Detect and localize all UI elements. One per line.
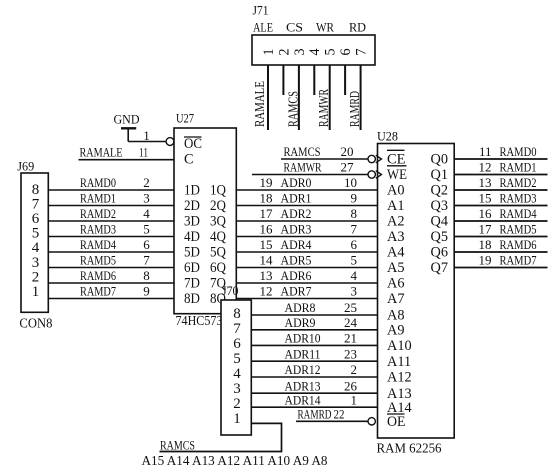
svg-text:11: 11: [139, 145, 148, 160]
svg-text:5Q: 5Q: [210, 245, 227, 261]
wire RAMRD to U28 pin 22: [296, 407, 368, 422]
J71 pin 3 wire and pin number: [292, 49, 308, 131]
svg-text:11: 11: [479, 144, 492, 159]
svg-text:RAMCS: RAMCS: [285, 91, 300, 127]
svg-text:7D: 7D: [184, 276, 200, 292]
wire ADR6 U27 pin 13 to U28 pin 4: [236, 268, 377, 283]
svg-text:5: 5: [323, 49, 339, 56]
svg-text:18: 18: [260, 191, 273, 206]
svg-text:A6: A6: [387, 276, 404, 292]
wire ADR4 U27 pin 15 to U28 pin 6: [236, 237, 377, 252]
U27 pin labels 1D 1Q: [184, 183, 227, 199]
svg-text:10: 10: [344, 175, 357, 190]
svg-text:RD: RD: [349, 20, 366, 35]
svg-text:1: 1: [143, 128, 150, 143]
svg-text:ADR12: ADR12: [285, 362, 321, 377]
svg-text:5D: 5D: [184, 245, 200, 261]
svg-text:6: 6: [32, 211, 40, 227]
U28 CE inversion bubble and edge wedge: [368, 155, 375, 162]
wire RAMD0 J69 pin 8 to U27 pin 2: [48, 175, 174, 190]
svg-text:A4: A4: [387, 245, 404, 261]
svg-text:8: 8: [351, 206, 358, 221]
svg-text:5: 5: [32, 226, 40, 242]
svg-text:OE: OE: [387, 414, 406, 430]
svg-text:8D: 8D: [184, 291, 200, 307]
wire RAMD2 U28 pin 13 output: [454, 175, 547, 190]
svg-text:ADR5: ADR5: [281, 253, 312, 268]
wire RAMD4 J69 pin 4 to U27 pin 6: [48, 237, 174, 252]
svg-text:A5: A5: [387, 260, 404, 276]
svg-text:A15 A14 A13 A12 A11 A10 A9 A8: A15 A14 A13 A12 A11 A10 A9 A8: [142, 453, 328, 468]
wire ADR5 U27 pin 14 to U28 pin 5: [236, 253, 377, 268]
svg-text:3Q: 3Q: [210, 214, 227, 230]
svg-text:5: 5: [143, 222, 150, 237]
svg-text:16: 16: [260, 222, 274, 237]
connector J70 body: [221, 300, 251, 435]
svg-text:WE: WE: [387, 167, 407, 183]
connector J69 body: [21, 173, 48, 312]
svg-text:8: 8: [143, 268, 150, 283]
J71 pin 7 wire and pin number: [354, 48, 370, 130]
svg-text:1: 1: [32, 284, 40, 300]
svg-text:7: 7: [233, 321, 241, 337]
svg-text:RAMALE: RAMALE: [252, 81, 267, 127]
svg-text:6: 6: [351, 237, 358, 252]
svg-text:7: 7: [354, 48, 370, 55]
svg-text:RAM 62256: RAM 62256: [377, 442, 442, 457]
svg-text:26: 26: [344, 378, 358, 393]
U28 pin label CE (active low): [387, 150, 406, 167]
svg-text:1Q: 1Q: [210, 183, 227, 199]
wire ADR8 J70 pin 7 to U28 pin 25: [251, 300, 377, 315]
svg-text:20: 20: [341, 144, 354, 159]
wire RAMWR to U28 pin 27: [252, 160, 368, 175]
wire RAMD1 J69 pin 7 to U27 pin 3: [48, 191, 174, 206]
svg-text:RAMD3: RAMD3: [80, 222, 116, 237]
svg-text:RAMD5: RAMD5: [80, 253, 116, 268]
U27 pin labels 3D 3Q: [184, 214, 227, 230]
svg-text:14: 14: [260, 253, 274, 268]
U28 OE inversion bubble: [368, 418, 375, 425]
svg-text:CON8: CON8: [19, 317, 52, 332]
svg-text:J71: J71: [253, 2, 269, 17]
svg-text:4: 4: [32, 240, 40, 256]
svg-text:Q0: Q0: [431, 152, 448, 168]
svg-text:6D: 6D: [184, 260, 200, 276]
svg-text:ADR14: ADR14: [285, 392, 321, 407]
svg-text:23: 23: [344, 346, 357, 361]
svg-text:CS: CS: [286, 20, 303, 35]
J71 pin 5 wire and pin number: [323, 49, 339, 131]
U27 pin labels 2D 2Q: [184, 198, 227, 214]
wire ADR9 J70 pin 6 to U28 pin 24: [251, 315, 377, 330]
J70 pin 1 wire to RAMCS net: [160, 423, 282, 451]
wire ADR10 J70 pin 5 to U28 pin 21: [251, 331, 377, 346]
svg-text:6Q: 6Q: [210, 260, 227, 276]
svg-text:A10: A10: [387, 338, 412, 354]
wire ADR0 U27 pin 19 to U28 pin 10: [236, 175, 377, 190]
svg-text:3D: 3D: [184, 214, 200, 230]
svg-text:2D: 2D: [184, 198, 200, 214]
svg-text:ADR1: ADR1: [281, 191, 312, 206]
svg-text:2: 2: [276, 49, 292, 56]
svg-text:15: 15: [479, 191, 492, 206]
svg-text:OC: OC: [184, 136, 202, 152]
svg-text:RAMD6: RAMD6: [500, 237, 537, 252]
wire ADR3 U27 pin 16 to U28 pin 7: [236, 222, 377, 237]
svg-text:ADR8: ADR8: [285, 300, 316, 315]
svg-text:RAMD7: RAMD7: [500, 253, 537, 268]
wire GND to U27 pin 1: [128, 128, 166, 141]
svg-text:RAMD2: RAMD2: [500, 175, 537, 190]
wire ADR2 U27 pin 17 to U28 pin 8: [236, 206, 377, 221]
svg-text:19: 19: [260, 175, 273, 190]
U27 pin labels 6D 6Q: [184, 260, 227, 276]
svg-text:1: 1: [351, 392, 358, 407]
svg-text:ADR7: ADR7: [281, 284, 312, 299]
wire ADR11 J70 pin 4 to U28 pin 23: [251, 346, 377, 361]
svg-text:RAMWR: RAMWR: [316, 89, 331, 127]
svg-text:2Q: 2Q: [210, 198, 227, 214]
wire RAMD6 J69 pin 2 to U27 pin 8: [48, 268, 174, 283]
svg-text:Q6: Q6: [431, 245, 448, 261]
svg-text:ALE: ALE: [253, 20, 273, 35]
svg-text:ADR4: ADR4: [281, 237, 312, 252]
svg-text:Q1: Q1: [431, 167, 448, 183]
svg-text:RAMRD: RAMRD: [298, 407, 332, 422]
svg-text:RAMD4: RAMD4: [80, 237, 116, 252]
wire RAMD5 J69 pin 3 to U27 pin 7: [48, 253, 174, 268]
svg-text:13: 13: [260, 268, 273, 283]
J71 pin 1 wire and pin number: [261, 49, 277, 131]
U28 pin label WE (active low): [387, 166, 407, 183]
svg-text:8: 8: [32, 182, 40, 198]
svg-text:12: 12: [479, 160, 492, 175]
svg-text:RAMALE: RAMALE: [80, 145, 123, 160]
svg-text:7: 7: [351, 222, 358, 237]
svg-text:1D: 1D: [184, 183, 200, 199]
svg-text:4: 4: [143, 206, 150, 221]
svg-text:4: 4: [351, 268, 358, 283]
svg-text:15: 15: [260, 237, 273, 252]
svg-text:3: 3: [143, 191, 150, 206]
wire RAMD1 U28 pin 12 output: [454, 160, 547, 175]
svg-text:21: 21: [344, 331, 357, 346]
svg-text:4Q: 4Q: [210, 229, 227, 245]
svg-text:17: 17: [479, 222, 493, 237]
svg-text:6: 6: [143, 237, 150, 252]
svg-text:2: 2: [351, 362, 358, 377]
svg-text:1: 1: [261, 49, 277, 56]
svg-text:Q5: Q5: [431, 229, 448, 245]
svg-text:RAMD2: RAMD2: [80, 206, 116, 221]
wire ADR14 J70 pin 1 to U28 pin 1: [251, 392, 377, 407]
svg-text:RAMD6: RAMD6: [80, 268, 116, 283]
svg-text:24: 24: [344, 315, 358, 330]
wire RAMD3 U28 pin 15 output: [454, 191, 547, 206]
svg-text:A3: A3: [387, 229, 404, 245]
wire RAMD4 U28 pin 16 output: [454, 206, 547, 221]
svg-text:ADR3: ADR3: [281, 222, 312, 237]
svg-text:Q3: Q3: [431, 198, 448, 214]
connector J71 body: [252, 35, 375, 65]
svg-text:RAMD4: RAMD4: [500, 206, 537, 221]
svg-text:RAMCS: RAMCS: [284, 144, 321, 159]
svg-text:ADR6: ADR6: [281, 268, 312, 283]
wire RAMALE to U27 pin 11: [79, 159, 175, 161]
svg-text:12: 12: [260, 284, 273, 299]
wire RAMD5 U28 pin 17 output: [454, 222, 547, 237]
svg-text:A11: A11: [387, 354, 411, 370]
svg-text:8: 8: [233, 306, 241, 322]
svg-text:RAMD1: RAMD1: [80, 191, 116, 206]
wire RAMD6 U28 pin 18 output: [454, 237, 547, 252]
svg-text:RAMCS: RAMCS: [160, 438, 195, 453]
svg-text:C: C: [184, 152, 194, 168]
svg-text:WR: WR: [316, 20, 334, 35]
svg-text:ADR2: ADR2: [281, 206, 312, 221]
wire RAMD2 J69 pin 6 to U27 pin 4: [48, 206, 174, 221]
svg-text:5: 5: [233, 351, 241, 367]
U28 pin label OE (active low): [387, 414, 406, 430]
J71 pin 6 wire and pin number: [338, 48, 354, 95]
svg-text:6: 6: [233, 336, 241, 352]
svg-text:U28: U28: [377, 129, 398, 144]
svg-text:RAMD5: RAMD5: [500, 222, 537, 237]
svg-text:U27: U27: [176, 111, 194, 126]
svg-text:2: 2: [32, 269, 40, 285]
svg-text:4D: 4D: [184, 229, 200, 245]
U27 pin label OC (active low): [184, 136, 202, 152]
wire RAMD3 J69 pin 5 to U27 pin 5: [48, 222, 174, 237]
svg-text:RAMD1: RAMD1: [500, 160, 537, 175]
svg-text:19: 19: [479, 253, 492, 268]
svg-text:2: 2: [233, 396, 241, 412]
svg-text:9: 9: [351, 191, 358, 206]
svg-text:A2: A2: [387, 214, 404, 230]
ground symbol GND: [114, 112, 140, 129]
wire ADR7 U27 pin 12 to U28 pin 3: [236, 284, 377, 299]
U28 WE inversion bubble and edge wedge: [368, 171, 375, 178]
svg-text:17: 17: [260, 206, 274, 221]
wire RAMD7 U28 pin 19 output: [454, 253, 547, 268]
U27 pin labels 8D 8Q: [184, 291, 227, 307]
svg-text:3: 3: [351, 284, 358, 299]
svg-text:3: 3: [233, 381, 241, 397]
wire ADR12 J70 pin 3 to U28 pin 2: [251, 362, 377, 377]
wire RAMCS to U28 pin 20: [281, 144, 368, 159]
U27 pin labels 4D 4Q: [184, 229, 227, 245]
svg-text:ADR13: ADR13: [285, 378, 321, 393]
svg-text:18: 18: [479, 237, 492, 252]
svg-text:RAMD0: RAMD0: [80, 175, 116, 190]
svg-text:Q7: Q7: [431, 260, 448, 276]
svg-text:6: 6: [338, 48, 354, 55]
svg-text:ADR11: ADR11: [285, 346, 321, 361]
svg-text:GND: GND: [114, 112, 140, 127]
latch U27 body: [174, 128, 236, 314]
svg-text:74HC573: 74HC573: [176, 314, 223, 329]
svg-text:A8: A8: [387, 308, 404, 324]
U27 pin 1 inversion bubble: [166, 138, 174, 146]
svg-text:RAMD3: RAMD3: [500, 191, 537, 206]
svg-text:Q4: Q4: [431, 214, 448, 230]
svg-text:A9: A9: [387, 323, 404, 339]
svg-text:25: 25: [344, 300, 357, 315]
svg-text:3: 3: [292, 49, 308, 56]
svg-text:A12: A12: [387, 370, 412, 386]
svg-text:RAMD7: RAMD7: [80, 284, 116, 299]
RAM U28 body: [378, 144, 455, 439]
svg-text:7: 7: [143, 253, 150, 268]
J71 pin 4 wire and pin number: [307, 48, 323, 95]
svg-text:16: 16: [479, 206, 493, 221]
svg-text:ADR9: ADR9: [285, 315, 316, 330]
svg-text:RAMRD: RAMRD: [347, 91, 362, 127]
svg-text:27: 27: [341, 160, 355, 175]
svg-text:ADR0: ADR0: [281, 175, 312, 190]
svg-text:J70: J70: [222, 283, 239, 298]
wire RAMD0 U28 pin 11 output: [454, 144, 547, 159]
wire RAMD7 J69 pin 1 to U27 pin 9: [48, 284, 174, 299]
J71 pin 2 wire and pin number: [276, 49, 292, 96]
svg-text:J69: J69: [17, 158, 34, 173]
svg-text:2: 2: [143, 175, 150, 190]
svg-text:1: 1: [233, 411, 241, 427]
svg-text:9: 9: [143, 284, 150, 299]
svg-text:Q2: Q2: [431, 183, 448, 199]
svg-text:RAMWR: RAMWR: [284, 160, 322, 175]
svg-text:22: 22: [334, 407, 345, 422]
wire ADR1 U27 pin 18 to U28 pin 9: [236, 191, 377, 206]
svg-text:A1: A1: [387, 198, 404, 214]
U27 pin labels 5D 5Q: [184, 245, 227, 261]
svg-text:RAMD0: RAMD0: [500, 144, 537, 159]
svg-text:5: 5: [351, 253, 358, 268]
wire ADR13 J70 pin 2 to U28 pin 26: [251, 378, 377, 393]
svg-text:4: 4: [307, 48, 323, 55]
U27 pin labels 7D 7Q: [184, 276, 227, 292]
svg-text:13: 13: [479, 175, 492, 190]
svg-text:4: 4: [233, 366, 241, 382]
svg-text:ADR10: ADR10: [285, 331, 321, 346]
svg-text:A7: A7: [387, 291, 404, 307]
svg-text:A0: A0: [387, 183, 404, 199]
